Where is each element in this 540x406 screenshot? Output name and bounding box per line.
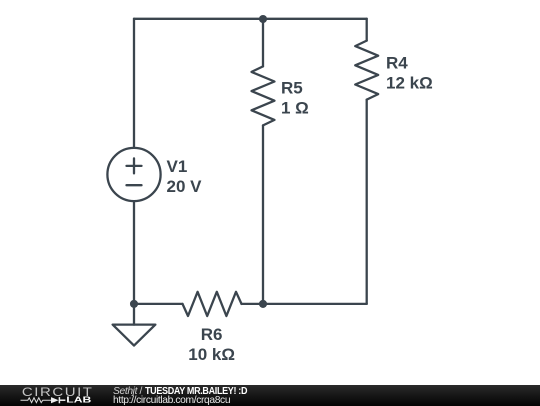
wire top horizontal <box>134 18 367 20</box>
node junction bottom middle <box>259 300 267 308</box>
resistor R4 <box>355 41 378 100</box>
CircuitLab logo <box>0 385 100 406</box>
node junction top <box>259 15 267 23</box>
resistor R5 <box>252 66 275 125</box>
wire middle vertical (R5 top lead) <box>262 19 264 67</box>
svg-text:10 kΩ: 10 kΩ <box>188 345 235 364</box>
wire bottom right segment <box>242 303 367 305</box>
label R4 <box>386 54 408 73</box>
value 10 kohm <box>188 345 235 364</box>
footer title text <box>113 386 261 404</box>
svg-text:12 kΩ: 12 kΩ <box>386 74 433 93</box>
wire V1 bottom lead <box>133 201 135 304</box>
wire right vertical (R4 top lead) <box>366 19 368 41</box>
wire R5 bottom lead <box>262 125 264 304</box>
node junction bottom left <box>130 300 138 308</box>
svg-text:V1: V1 <box>167 157 188 176</box>
value 12 kohm <box>386 74 433 93</box>
value 20 V <box>167 177 203 196</box>
label V1 <box>167 157 188 176</box>
wire bottom left segment <box>134 303 183 305</box>
svg-text:1 Ω: 1 Ω <box>281 99 309 118</box>
svg-text:R6: R6 <box>201 325 223 344</box>
ground stub wire <box>133 304 135 325</box>
svg-text:R5: R5 <box>281 79 303 98</box>
ground symbol <box>113 325 156 346</box>
label R6 <box>201 325 223 344</box>
resistor R6 <box>183 292 242 316</box>
wire left vertical (V1 top lead) <box>133 19 135 148</box>
footer bar <box>0 385 540 406</box>
voltage source V1 <box>107 148 160 201</box>
label R5 <box>281 79 303 98</box>
svg-text:R4: R4 <box>386 54 408 73</box>
wire R4 bottom lead <box>366 100 368 304</box>
value 1 ohm <box>281 99 309 118</box>
svg-text:20 V: 20 V <box>167 177 203 196</box>
svg-text:LAB: LAB <box>66 395 92 405</box>
